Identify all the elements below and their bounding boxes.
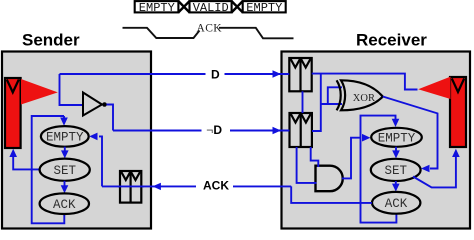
- wire D line: [60, 73, 290, 75]
- sender state ACK: [40, 193, 89, 214]
- wire receiver ACK loop: [361, 116, 397, 223]
- svg-text:EMPTY: EMPTY: [246, 1, 282, 15]
- wire notD stub into latch: [281, 130, 290, 132]
- sender state SET: [40, 159, 90, 181]
- sender box: [2, 52, 151, 229]
- receiver state EMPTY: [371, 128, 422, 147]
- svg-text:SET: SET: [54, 164, 77, 178]
- wire notD line: [113, 130, 290, 132]
- arrowhead ACK into sender: [152, 183, 161, 190]
- arrowhead into red bar bottom: [9, 149, 17, 157]
- AND gate U3: [316, 166, 343, 192]
- inverter U1: [83, 93, 107, 116]
- svg-text:¬D: ¬D: [206, 123, 222, 137]
- receiver data latch (red bar): [450, 77, 466, 147]
- svg-text:ACK: ACK: [197, 23, 223, 35]
- XOR gate U2: [337, 80, 383, 110]
- timing crossover X2: [232, 1, 243, 12]
- ACK waveform trace right: [219, 28, 294, 39]
- sender state EMPTY: [41, 126, 89, 147]
- arrowhead D into receiver: [273, 70, 282, 77]
- wire XOR feed vertical: [312, 74, 321, 131]
- wire sender D tap: [60, 74, 85, 105]
- arrowhead into receiver EMPTY left: [362, 134, 371, 142]
- arrow receiver EMPTY to SET: [392, 147, 400, 159]
- ACK waveform trace: [123, 28, 200, 38]
- wire ACK line receiver to sender: [102, 185, 291, 187]
- svg-text:ACK: ACK: [385, 197, 408, 211]
- wire D stub into latch: [281, 73, 289, 75]
- wire receiver SET to red bar: [413, 152, 456, 187]
- timing box EMPTY (right): [243, 1, 286, 15]
- timing crossover X1: [178, 1, 189, 12]
- arrow sender EMPTY to SET: [61, 147, 69, 159]
- wire XOR input stubs: [321, 87, 342, 104]
- wire receiver ACK out to sender: [291, 186, 372, 203]
- wire XOR output to SET: [383, 97, 438, 169]
- timing box VALID: [190, 1, 232, 15]
- arrowhead into receiver EMPTY top: [392, 119, 400, 127]
- wire between receiver latches: [302, 91, 304, 113]
- svg-text:EMPTY: EMPTY: [378, 132, 416, 146]
- wire latch to AND input 2: [297, 147, 317, 183]
- arrow receiver SET to ACK: [392, 181, 400, 192]
- svg-text:VALID: VALID: [193, 1, 229, 15]
- wire latch to AND input 1: [311, 147, 319, 167]
- receiver D latch (top): [289, 58, 311, 91]
- arrow sender SET to ACK: [61, 181, 69, 193]
- wire AND output to EMPTY left: [342, 138, 361, 179]
- receiver output flag (red triangle): [418, 77, 450, 99]
- receiver state ACK: [372, 192, 420, 214]
- receiver notD latch (bottom): [290, 113, 312, 147]
- wire sender ACK loop vertical: [32, 116, 65, 223]
- svg-text:ACK: ACK: [53, 198, 76, 212]
- svg-text:EMPTY: EMPTY: [46, 131, 84, 145]
- svg-text:SET: SET: [385, 164, 408, 178]
- sender output flag (red triangle): [21, 79, 58, 105]
- sender ack latch (double cell): [120, 171, 141, 203]
- wire sender SET to red bar: [13, 152, 39, 169]
- arrowhead into receiver red bar bottom: [452, 149, 460, 157]
- svg-text:Receiver: Receiver: [356, 31, 427, 50]
- arrowhead notD into receiver: [273, 127, 282, 134]
- sender data latch (red bar): [5, 78, 21, 148]
- wire inverter output to notD: [107, 105, 114, 131]
- timing box EMPTY (left): [135, 1, 179, 15]
- wire ACK into sender EMPTY right: [99, 136, 102, 186]
- arrowhead into sender EMPTY top: [60, 118, 68, 126]
- wire ACK over sender latch: [118, 185, 144, 187]
- receiver state SET: [371, 159, 421, 181]
- arrowhead into EMPTY right edge: [89, 133, 97, 141]
- svg-text:Sender: Sender: [22, 31, 80, 50]
- svg-text:ACK: ACK: [203, 179, 229, 193]
- svg-text:EMPTY: EMPTY: [139, 1, 175, 15]
- arrowhead into receiver SET right: [421, 165, 430, 173]
- svg-text:XOR: XOR: [353, 93, 375, 104]
- svg-text:D: D: [211, 67, 220, 81]
- wire top latch output to red flag: [312, 74, 418, 90]
- receiver box: [282, 52, 471, 229]
